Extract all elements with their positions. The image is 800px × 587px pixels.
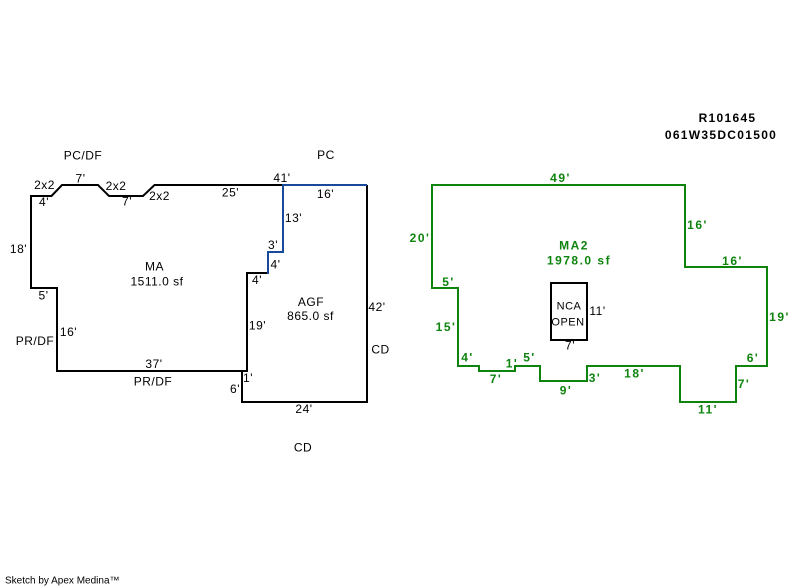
svg-text:1': 1'	[506, 357, 519, 371]
svg-text:2x2: 2x2	[106, 179, 127, 193]
svg-text:PR/DF: PR/DF	[134, 375, 173, 389]
svg-text:6': 6'	[230, 382, 240, 396]
svg-text:16': 16'	[687, 218, 708, 232]
svg-text:11': 11'	[589, 304, 605, 318]
svg-text:2x2: 2x2	[149, 189, 170, 203]
svg-text:25': 25'	[222, 186, 239, 200]
svg-text:20': 20'	[410, 231, 431, 245]
svg-text:37': 37'	[145, 357, 162, 371]
svg-text:3': 3'	[268, 238, 278, 252]
svg-text:16': 16'	[722, 254, 743, 268]
svg-text:19': 19'	[249, 319, 266, 333]
svg-text:R101645: R101645	[699, 111, 757, 125]
svg-text:7': 7'	[490, 372, 503, 386]
svg-text:865.0 sf: 865.0 sf	[287, 309, 334, 323]
svg-text:13': 13'	[285, 211, 302, 225]
svg-text:16': 16'	[317, 187, 334, 201]
svg-text:1': 1'	[243, 371, 253, 385]
svg-text:5': 5'	[523, 351, 536, 365]
svg-text:5': 5'	[39, 289, 49, 303]
svg-text:49': 49'	[550, 171, 571, 185]
svg-text:3': 3'	[589, 371, 602, 385]
svg-text:PC/DF: PC/DF	[64, 149, 103, 163]
svg-text:CD: CD	[294, 441, 312, 455]
svg-text:AGF: AGF	[298, 295, 324, 309]
svg-text:18': 18'	[10, 242, 27, 256]
svg-text:2x2: 2x2	[34, 178, 55, 192]
svg-text:PC: PC	[317, 148, 335, 162]
svg-text:Sketch by Apex Medina™: Sketch by Apex Medina™	[5, 576, 120, 587]
svg-text:NCA: NCA	[557, 301, 582, 313]
svg-text:7': 7'	[565, 339, 575, 353]
svg-text:7': 7'	[122, 195, 132, 209]
svg-text:CD: CD	[371, 343, 389, 357]
svg-text:4': 4'	[39, 195, 49, 209]
svg-text:15': 15'	[436, 320, 457, 334]
svg-text:7': 7'	[738, 377, 751, 391]
svg-text:16': 16'	[60, 325, 77, 339]
svg-text:7': 7'	[76, 172, 86, 186]
svg-text:19': 19'	[769, 310, 790, 324]
svg-text:061W35DC01500: 061W35DC01500	[665, 128, 777, 142]
svg-text:4': 4'	[252, 273, 262, 287]
svg-text:11': 11'	[698, 403, 718, 417]
svg-text:4': 4'	[461, 351, 474, 365]
svg-text:OPEN: OPEN	[551, 317, 584, 329]
svg-text:MA2: MA2	[559, 239, 589, 253]
svg-text:4': 4'	[271, 258, 281, 272]
svg-text:41': 41'	[273, 171, 290, 185]
svg-text:1978.0 sf: 1978.0 sf	[547, 254, 611, 268]
svg-text:MA: MA	[145, 260, 164, 274]
svg-text:18': 18'	[624, 367, 645, 381]
svg-text:9': 9'	[560, 384, 573, 398]
svg-text:42': 42'	[368, 300, 385, 314]
svg-text:6': 6'	[747, 351, 760, 365]
svg-text:PR/DF: PR/DF	[16, 334, 55, 348]
svg-text:1511.0 sf: 1511.0 sf	[131, 275, 184, 289]
svg-text:24': 24'	[295, 402, 312, 416]
svg-text:5': 5'	[442, 275, 455, 289]
